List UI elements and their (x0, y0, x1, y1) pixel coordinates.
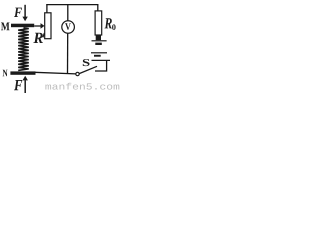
label R prime R (33, 33, 42, 43)
force F arrow top (downward) (24, 5, 26, 17)
label S (83, 59, 90, 66)
wire top horizontal (46, 4, 98, 6)
force F arrow bottom (upward) (24, 80, 26, 93)
prime tick of R' (43, 33, 45, 37)
resistor R0 box (95, 11, 102, 35)
label R0 sub 0 (112, 24, 116, 30)
label F bottom (14, 80, 22, 90)
battery bottom long plate (92, 59, 111, 61)
wire drop to R0 (97, 4, 99, 11)
label watermark manfen5.com (45, 83, 119, 90)
wire bottom rail from N plate to switch (35, 72, 76, 74)
plate M (top electrode) (11, 24, 34, 28)
label F top (14, 8, 22, 17)
wiper arrow into R' (34, 25, 41, 27)
plate N (bottom electrode) (10, 71, 35, 74)
battery cell 2 long plate (91, 52, 107, 54)
wire drop to rheostat R' (46, 4, 48, 13)
battery cell 1 short thick plate (95, 43, 102, 45)
label V glyph (65, 23, 71, 30)
wire battery bottom L to switch contact (95, 61, 107, 72)
switch S blade (open) (79, 66, 97, 73)
wire voltmeter to bottom rail (67, 33, 69, 73)
switch S hinge circle (76, 72, 79, 75)
label N (3, 70, 8, 77)
label M (1, 22, 10, 30)
voltmeter circle (62, 21, 75, 34)
wire drop to voltmeter (67, 4, 69, 21)
battery cell 1 long plate (92, 40, 107, 42)
thick lead under R0 (96, 35, 101, 40)
spring element between M and N (18, 28, 29, 71)
rheostat R' box (45, 13, 51, 39)
label R0 R (105, 18, 112, 28)
battery cell 2 short thick plate (94, 55, 101, 57)
